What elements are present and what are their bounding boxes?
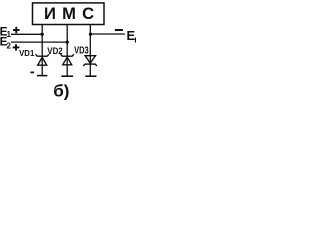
node E2/pin2 junction [66, 40, 69, 43]
IC box U1 (ИМС) [33, 3, 105, 25]
polarity - at VD1 cathode-bottom [30, 71, 34, 73]
node Ep/pin3 junction [89, 33, 92, 36]
node E1/pin1 junction [41, 33, 44, 36]
diode VD2 (anode down, cathode bar up with flared tips) [61, 54, 74, 65]
wire E1 input [11, 33, 42, 35]
polarity + for E2 [13, 44, 20, 50]
wire E2 input [11, 41, 67, 43]
svg-text:б): б) [53, 81, 69, 100]
polarity + for E1 [13, 27, 20, 33]
diode VD3 (anode up, cathode bar down with flared tips) [83, 56, 97, 66]
terminal bar of VD2 [61, 75, 73, 77]
svg-text:VD3: VD3 [74, 45, 89, 56]
terminal bar of VD3 [85, 75, 96, 77]
pin 2 wire (from box to VD2) [66, 25, 68, 76]
pin 1 wire (from box to VD1) [41, 25, 43, 76]
svg-text:Eп: Eп [127, 28, 137, 44]
wire -Ep supply [90, 33, 124, 35]
svg-text:VD1: VD1 [19, 48, 34, 58]
svg-text:ИМС: ИМС [44, 4, 100, 23]
pin 3 wire (from box to VD3) [89, 25, 91, 76]
terminal bar of VD1 [37, 75, 47, 77]
svg-text:VD2: VD2 [47, 46, 62, 57]
polarity - for Ep [115, 29, 123, 31]
diode VD1 (anode down, cathode bar up with flared tips) [36, 54, 49, 65]
